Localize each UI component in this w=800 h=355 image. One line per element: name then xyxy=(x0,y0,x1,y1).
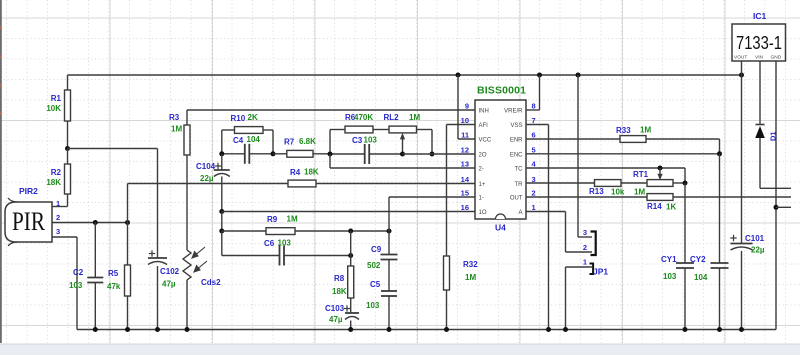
wire node13 jog xyxy=(329,154,331,168)
wire pin1 down to JP pin2 xyxy=(565,212,567,253)
wire RL2 wiper arrow up xyxy=(402,137,404,154)
capacitor CY2 xyxy=(711,262,729,264)
op-amp IC U4 BISS0001 body xyxy=(475,100,526,219)
svg-text:PIR2: PIR2 xyxy=(19,186,38,196)
svg-text:TR: TR xyxy=(515,182,524,188)
node junction VOUT column on bus xyxy=(739,73,744,78)
node C5 ground xyxy=(387,327,392,332)
wire R5 riser to R4 row xyxy=(127,184,129,223)
wire VCC top bus xyxy=(68,74,742,76)
node junction VCC-riser on bus xyxy=(456,73,461,78)
wire C6 tap riser xyxy=(350,231,352,256)
svg-text:OUT: OUT xyxy=(510,196,523,202)
svg-text:R5: R5 xyxy=(108,269,119,278)
node C4 left / C104 top xyxy=(219,151,224,156)
svg-text:ENR: ENR xyxy=(510,138,523,144)
wire pin10 row AFI xyxy=(447,124,476,126)
svg-text:GND: GND xyxy=(771,55,782,61)
svg-text:9: 9 xyxy=(465,102,469,111)
svg-text:C5: C5 xyxy=(370,280,381,289)
wire pin7 VSS down to ground xyxy=(526,124,549,126)
svg-text:103: 103 xyxy=(278,239,292,248)
node divider R1/R2 xyxy=(65,146,70,151)
node junction pin8 riser on bus xyxy=(537,73,542,78)
wire R7 to node13 xyxy=(313,153,330,155)
wire R10 loop left xyxy=(221,130,223,154)
bottom scrollbar strip xyxy=(0,344,800,355)
resistor R33 xyxy=(526,138,620,140)
svg-text:14: 14 xyxy=(461,175,470,184)
node CY1 ground xyxy=(683,327,688,332)
capacitor C5 xyxy=(381,290,397,292)
node R5 ground xyxy=(125,327,130,332)
wire JP riser from bus xyxy=(577,75,579,237)
wire pin1 row A xyxy=(526,211,566,213)
svg-text:R9: R9 xyxy=(267,215,278,224)
node C103 ground xyxy=(348,327,353,332)
wire loop2 right side xyxy=(431,130,433,155)
wire GND stub to edge xyxy=(776,206,791,208)
svg-text:7: 7 xyxy=(532,116,536,125)
node RL2 wiper on row xyxy=(400,152,405,157)
potentiometer RT1 xyxy=(621,182,647,184)
connector JP1 pin1 bracket xyxy=(590,264,594,275)
wire R3 bottom to Cds2 xyxy=(186,155,188,251)
resistor R5 xyxy=(127,223,129,266)
svg-text:1: 1 xyxy=(56,199,60,208)
wire GND bottom bus xyxy=(77,329,776,331)
svg-text:16: 16 xyxy=(461,203,469,212)
svg-text:IC1: IC1 xyxy=(753,11,767,21)
resistor R2 xyxy=(67,149,69,165)
svg-text:12: 12 xyxy=(461,145,469,154)
svg-text:8: 8 xyxy=(532,102,536,111)
wire CY2 column xyxy=(719,154,721,263)
svg-text:2: 2 xyxy=(583,243,587,252)
node junction JP riser on bus xyxy=(576,73,581,78)
capacitor C6 xyxy=(222,255,280,257)
wire pin2 OUT to JP riser xyxy=(526,196,578,198)
resistor R7 xyxy=(273,153,287,155)
svg-text:C6: C6 xyxy=(264,239,275,248)
svg-text:1M: 1M xyxy=(465,273,476,282)
svg-text:R13: R13 xyxy=(589,187,604,196)
svg-text:R32: R32 xyxy=(463,260,478,269)
svg-text:15: 15 xyxy=(461,189,469,198)
left window border xyxy=(0,0,2,343)
svg-text:R4: R4 xyxy=(290,168,301,177)
svg-text:502: 502 xyxy=(367,261,381,270)
resistor R8 xyxy=(350,256,352,267)
capacitor C101 electrolytic xyxy=(730,237,736,239)
node C101 ground xyxy=(739,327,744,332)
svg-text:1: 1 xyxy=(532,203,536,212)
svg-text:RT1: RT1 xyxy=(633,170,649,179)
wire CY1 column xyxy=(684,183,686,263)
wire column to C6 corner xyxy=(221,231,223,256)
svg-text:INH: INH xyxy=(479,109,489,115)
photoresistor Cds2 xyxy=(183,250,191,280)
svg-text:103: 103 xyxy=(663,272,677,281)
svg-text:R8: R8 xyxy=(334,274,345,283)
svg-text:PIR: PIR xyxy=(12,207,46,236)
svg-text:JP1: JP1 xyxy=(593,267,608,277)
wire pin15 column down xyxy=(388,197,390,231)
node R5 top xyxy=(125,220,130,225)
wire loop2 left side xyxy=(329,130,331,155)
svg-text:VRE/R: VRE/R xyxy=(504,109,523,115)
wire R2 bottom to PIR pin1 xyxy=(67,194,69,207)
svg-text:18K: 18K xyxy=(332,287,347,296)
svg-text:1M: 1M xyxy=(409,113,420,122)
svg-text:18K: 18K xyxy=(46,178,61,187)
svg-text:C101: C101 xyxy=(745,234,765,243)
svg-text:VIN: VIN xyxy=(755,55,764,61)
wire R10 loop right xyxy=(272,130,274,154)
wire VOUT column xyxy=(741,61,743,244)
svg-text:18K: 18K xyxy=(304,168,319,177)
wire JP pin1 stub xyxy=(566,266,593,268)
node loop2 right on row xyxy=(430,152,435,157)
node GND stub xyxy=(774,205,779,210)
wire D1 down to input stub xyxy=(759,138,761,188)
node C102 ground xyxy=(155,327,160,332)
capacitor C2 xyxy=(94,223,96,278)
svg-text:5: 5 xyxy=(532,145,536,154)
resistor R6 xyxy=(330,113,373,133)
wire pin15 row 1- xyxy=(389,196,475,198)
svg-text:BISS0001: BISS0001 xyxy=(477,85,526,97)
node C4 right / R7 left xyxy=(271,151,276,156)
wire JP pin2 stub xyxy=(566,251,593,253)
svg-text:104: 104 xyxy=(694,273,708,282)
resistor R13 xyxy=(526,182,595,184)
wire C9 to C5 xyxy=(388,260,390,292)
svg-text:1-: 1- xyxy=(479,196,484,202)
wire JP pin1 to ground xyxy=(565,267,567,330)
wire pin13 row 2- xyxy=(330,167,475,169)
svg-text:11: 11 xyxy=(461,131,469,140)
svg-text:R1: R1 xyxy=(51,94,62,103)
svg-text:C2: C2 xyxy=(73,268,84,277)
wire divider node to C102 riser xyxy=(68,148,158,150)
resistor R10 xyxy=(222,113,273,133)
wire PIR pin2 row xyxy=(52,222,128,224)
wire GND column xyxy=(775,61,777,330)
node R9 right / pin15 column xyxy=(387,229,392,234)
svg-text:1M: 1M xyxy=(287,215,298,224)
svg-text:1M: 1M xyxy=(171,125,182,134)
node R32 ground xyxy=(444,327,449,332)
svg-text:A: A xyxy=(518,210,522,216)
svg-text:R33: R33 xyxy=(616,126,631,135)
capacitor C102 electrolytic xyxy=(149,253,155,255)
svg-text:2: 2 xyxy=(56,213,60,222)
regulator IC1 7133-1 body xyxy=(732,24,786,61)
svg-text:22µ: 22µ xyxy=(751,246,765,255)
svg-text:VCC: VCC xyxy=(479,138,492,144)
wire R33 corner down xyxy=(719,139,721,154)
connector JP1 bracket pins 3-2 xyxy=(591,232,596,256)
node C2 ground xyxy=(93,327,98,332)
svg-text:2K: 2K xyxy=(248,113,258,122)
wire R1 top to bus xyxy=(67,75,69,90)
svg-text:C9: C9 xyxy=(371,245,382,254)
svg-text:1O: 1O xyxy=(479,210,487,216)
svg-text:10K: 10K xyxy=(46,104,61,113)
wire C104 column down xyxy=(221,212,223,232)
node CY2 ground xyxy=(717,327,722,332)
capacitor C4 xyxy=(222,153,245,155)
svg-text:1K: 1K xyxy=(666,203,676,212)
svg-text:C104: C104 xyxy=(196,162,216,171)
node VSS ground xyxy=(546,327,551,332)
wire AFI column down xyxy=(446,125,448,257)
wire divider node down to C102 xyxy=(157,149,159,259)
capacitor C3 xyxy=(330,153,365,155)
svg-text:6: 6 xyxy=(532,131,536,140)
svg-text:10: 10 xyxy=(461,116,469,125)
wire pin4 row xyxy=(526,167,685,169)
resistor R1 xyxy=(65,90,71,121)
svg-text:47µ: 47µ xyxy=(162,280,176,289)
node RT1 right / CY1 top xyxy=(683,181,688,186)
svg-text:R14: R14 xyxy=(647,202,662,211)
wire R1 bottom to divider node xyxy=(67,121,69,149)
svg-text:103: 103 xyxy=(366,301,380,310)
svg-text:CY1: CY1 xyxy=(661,255,677,264)
wire pin16 row 1O xyxy=(222,211,475,213)
svg-text:R10: R10 xyxy=(231,114,246,123)
svg-text:7133-1: 7133-1 xyxy=(736,33,782,53)
svg-text:2: 2 xyxy=(532,189,536,198)
node JP1 ground xyxy=(563,327,568,332)
node C6-R8 tap on R9 row xyxy=(348,229,353,234)
svg-text:47µ: 47µ xyxy=(329,315,343,324)
svg-text:1: 1 xyxy=(583,258,587,267)
svg-text:RL2: RL2 xyxy=(384,113,400,122)
resistor R4 xyxy=(128,183,289,185)
capacitor CY1 xyxy=(676,262,694,264)
svg-text:2O: 2O xyxy=(479,152,487,158)
svg-text:104: 104 xyxy=(247,135,261,144)
svg-text:1M: 1M xyxy=(634,188,645,197)
svg-text:10k: 10k xyxy=(611,188,625,197)
svg-text:22µ: 22µ xyxy=(200,174,214,183)
resistor R9 xyxy=(222,230,266,232)
svg-text:Cds2: Cds2 xyxy=(201,278,221,287)
resistor R14 xyxy=(578,196,647,198)
svg-text:R2: R2 xyxy=(51,168,62,177)
wire RT1 wiper arrow down xyxy=(659,168,661,176)
svg-text:AFI: AFI xyxy=(479,123,489,129)
wire pin8 to bus xyxy=(526,109,540,111)
svg-text:103: 103 xyxy=(69,281,83,290)
wire pin4 corner down xyxy=(684,168,686,183)
capacitor C104 electrolytic xyxy=(221,154,223,170)
wire OUT row to edge xyxy=(673,196,791,198)
wire VIN to D1 xyxy=(759,61,761,125)
svg-text:C3: C3 xyxy=(352,136,363,145)
svg-text:1+: 1+ xyxy=(479,182,486,188)
wire pin9 row INH xyxy=(187,109,475,111)
svg-text:U4: U4 xyxy=(495,223,506,233)
node pin5/R33/CY2 xyxy=(717,151,722,156)
potentiometer RL2 xyxy=(373,113,432,133)
node pin13 net at loop2 left xyxy=(328,152,333,157)
svg-text:R7: R7 xyxy=(284,138,295,147)
wire row to pin12 xyxy=(403,153,476,155)
node R9 left xyxy=(219,229,224,234)
wire pin11 VCC riser xyxy=(457,75,459,139)
svg-text:470K: 470K xyxy=(354,113,373,122)
svg-text:TC: TC xyxy=(515,167,524,173)
svg-text:3: 3 xyxy=(583,228,587,237)
node C2 top xyxy=(93,220,98,225)
node C6 right / R8 top xyxy=(348,253,353,258)
svg-text:VOUT: VOUT xyxy=(734,55,747,61)
wire PIR pin3 to ground xyxy=(52,236,77,238)
node RT1 wiper tap xyxy=(658,166,663,171)
svg-text:C4: C4 xyxy=(233,136,244,145)
svg-text:47k: 47k xyxy=(107,282,121,291)
svg-text:1M: 1M xyxy=(640,126,651,135)
node C104 bottom / 1O row xyxy=(219,209,224,214)
svg-text:6.8K: 6.8K xyxy=(299,137,316,146)
capacitor C9 xyxy=(388,231,390,255)
node Cds2 ground xyxy=(185,327,190,332)
svg-text:C102: C102 xyxy=(160,267,180,276)
svg-text:13: 13 xyxy=(461,160,469,169)
svg-text:2-: 2- xyxy=(479,167,484,173)
wire pin5 row xyxy=(526,153,720,155)
diode D1 xyxy=(756,124,765,126)
svg-text:C103: C103 xyxy=(325,304,345,313)
svg-text:R3: R3 xyxy=(169,113,180,122)
sensor PIR2 body xyxy=(5,202,52,242)
resistor R3 xyxy=(186,110,188,125)
svg-text:103: 103 xyxy=(364,136,378,145)
svg-text:VSS: VSS xyxy=(510,123,522,129)
svg-text:ENC: ENC xyxy=(510,152,523,158)
svg-text:3: 3 xyxy=(56,227,60,236)
capacitor C103 electrolytic xyxy=(350,298,352,313)
resistor R32 xyxy=(444,256,450,290)
